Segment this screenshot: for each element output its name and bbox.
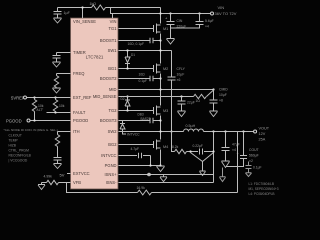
svg-text:8.2k: 8.2k: [172, 145, 179, 149]
svg-text:PGOOD: PGOOD: [73, 118, 88, 123]
svg-text:4.99k: 4.99k: [44, 175, 53, 179]
svg-text:10Ω, 0.1µF: 10Ω, 0.1µF: [128, 42, 144, 46]
svg-text:M1, SEPEC05N04+3: M1, SEPEC05N04+3: [249, 187, 279, 191]
svg-text:0.1µF: 0.1µF: [139, 79, 148, 83]
svg-text:INTVCC: INTVCC: [127, 133, 140, 137]
svg-text:16.9k: 16.9k: [137, 186, 146, 190]
svg-text:VFB: VFB: [73, 180, 81, 185]
svg-text:CLKOUT: CLKOUT: [9, 134, 22, 138]
svg-text:×4: ×4: [205, 25, 209, 29]
svg-text:MID: MID: [109, 87, 117, 92]
svg-text:D2: D2: [121, 97, 125, 101]
svg-text:EXT_REF: EXT_REF: [73, 95, 92, 100]
svg-text:BAS21: BAS21: [141, 117, 151, 121]
svg-text:VIN: VIN: [218, 5, 225, 10]
svg-text:TG2: TG2: [109, 108, 118, 113]
svg-text:×8: ×8: [219, 99, 223, 103]
svg-text:BG1: BG1: [108, 66, 117, 71]
svg-text:VOUT: VOUT: [259, 127, 270, 131]
svg-text:×6: ×6: [177, 78, 181, 82]
svg-text:VIN: VIN: [110, 19, 117, 24]
svg-text:M4: M4: [163, 145, 168, 149]
svg-text:EXTVCC: EXTVCC: [73, 171, 90, 176]
svg-text:×4: ×4: [232, 148, 236, 152]
svg-text:5V: 5V: [60, 173, 65, 178]
svg-text:COUT: COUT: [249, 148, 259, 152]
svg-text:25A: 25A: [259, 138, 266, 142]
svg-text:1µF: 1µF: [64, 11, 71, 15]
svg-text:BOOST3: BOOST3: [100, 118, 117, 123]
svg-text:M2: M2: [163, 67, 168, 71]
svg-text:BOOST2: BOOST2: [100, 76, 117, 81]
svg-text:1Ω: 1Ω: [196, 99, 201, 103]
svg-text:L4: PC08/04DPLB: L4: PC08/04DPLB: [249, 192, 275, 196]
svg-text:PGOOD: PGOOD: [6, 119, 22, 124]
svg-text:10Ω: 10Ω: [139, 73, 146, 77]
svg-text:10µF: 10µF: [177, 73, 185, 77]
svg-text:TG1: TG1: [109, 26, 118, 31]
svg-text:ISNS-: ISNS-: [106, 180, 118, 185]
svg-text:0.1µF: 0.1µF: [253, 166, 262, 170]
svg-text:*ALL NODE ID CON. IN (REG G. S: *ALL NODE ID CON. IN (REG G. SEL.): [4, 128, 58, 132]
svg-text:12V: 12V: [259, 132, 266, 136]
svg-text:“ALT”: “ALT”: [36, 108, 44, 112]
svg-text:CFLY: CFLY: [177, 67, 186, 71]
svg-text:5VREF: 5VREF: [11, 96, 25, 101]
svg-text:0.5µH: 0.5µH: [186, 124, 196, 128]
svg-text:BOOST1: BOOST1: [100, 38, 117, 43]
svg-text:CTRL_PRGM: CTRL_PRGM: [9, 149, 30, 153]
svg-text:CMID: CMID: [219, 88, 228, 92]
svg-text:560µF: 560µF: [249, 154, 259, 158]
svg-text:TIMER: TIMER: [73, 50, 86, 55]
svg-text:1kΩ: 1kΩ: [90, 2, 97, 6]
svg-text:22µF: 22µF: [187, 101, 195, 105]
svg-text:TEMP: TEMP: [9, 139, 19, 143]
svg-text:FAULT: FAULT: [73, 110, 86, 115]
svg-text:0.22µF: 0.22µF: [193, 144, 203, 148]
svg-text:10k: 10k: [59, 104, 65, 108]
svg-text:LTC7821: LTC7821: [86, 55, 104, 60]
svg-text:CIN: CIN: [177, 19, 183, 23]
svg-text:5.6µF: 5.6µF: [205, 19, 214, 23]
svg-text:10µF: 10µF: [219, 93, 227, 97]
svg-text:HIZB: HIZB: [9, 144, 17, 148]
svg-text:VIN_SENSE: VIN_SENSE: [73, 19, 96, 24]
svg-text:L1: FDC70604/LB: L1: FDC70604/LB: [249, 182, 275, 186]
svg-text:ISNS+: ISNS+: [105, 172, 118, 177]
svg-text:BG2: BG2: [108, 142, 117, 147]
svg-text:MID_SENSE: MID_SENSE: [93, 94, 117, 99]
svg-text:INTVCC: INTVCC: [101, 153, 116, 158]
svg-text:| VCCGOOD: | VCCGOOD: [9, 159, 28, 163]
svg-text:ITH: ITH: [73, 129, 80, 134]
svg-text:220µF: 220µF: [177, 25, 187, 29]
svg-text:DB3: DB3: [138, 113, 144, 117]
svg-text:D1: D1: [131, 53, 135, 57]
svg-text:M1: M1: [163, 27, 168, 31]
svg-text:SW1: SW1: [108, 48, 118, 53]
svg-text:×2: ×2: [249, 159, 253, 163]
svg-text:FREQ: FREQ: [73, 71, 84, 76]
svg-text:47µF: 47µF: [232, 143, 240, 147]
svg-text:PGND: PGND: [105, 163, 117, 168]
svg-text:36V TO 72V: 36V TO 72V: [215, 11, 237, 16]
svg-text:4.7µF: 4.7µF: [131, 147, 140, 151]
svg-text:RECONFIG/LB: RECONFIG/LB: [9, 154, 32, 158]
svg-text:M3: M3: [163, 109, 168, 113]
svg-text:SW2: SW2: [108, 129, 118, 134]
